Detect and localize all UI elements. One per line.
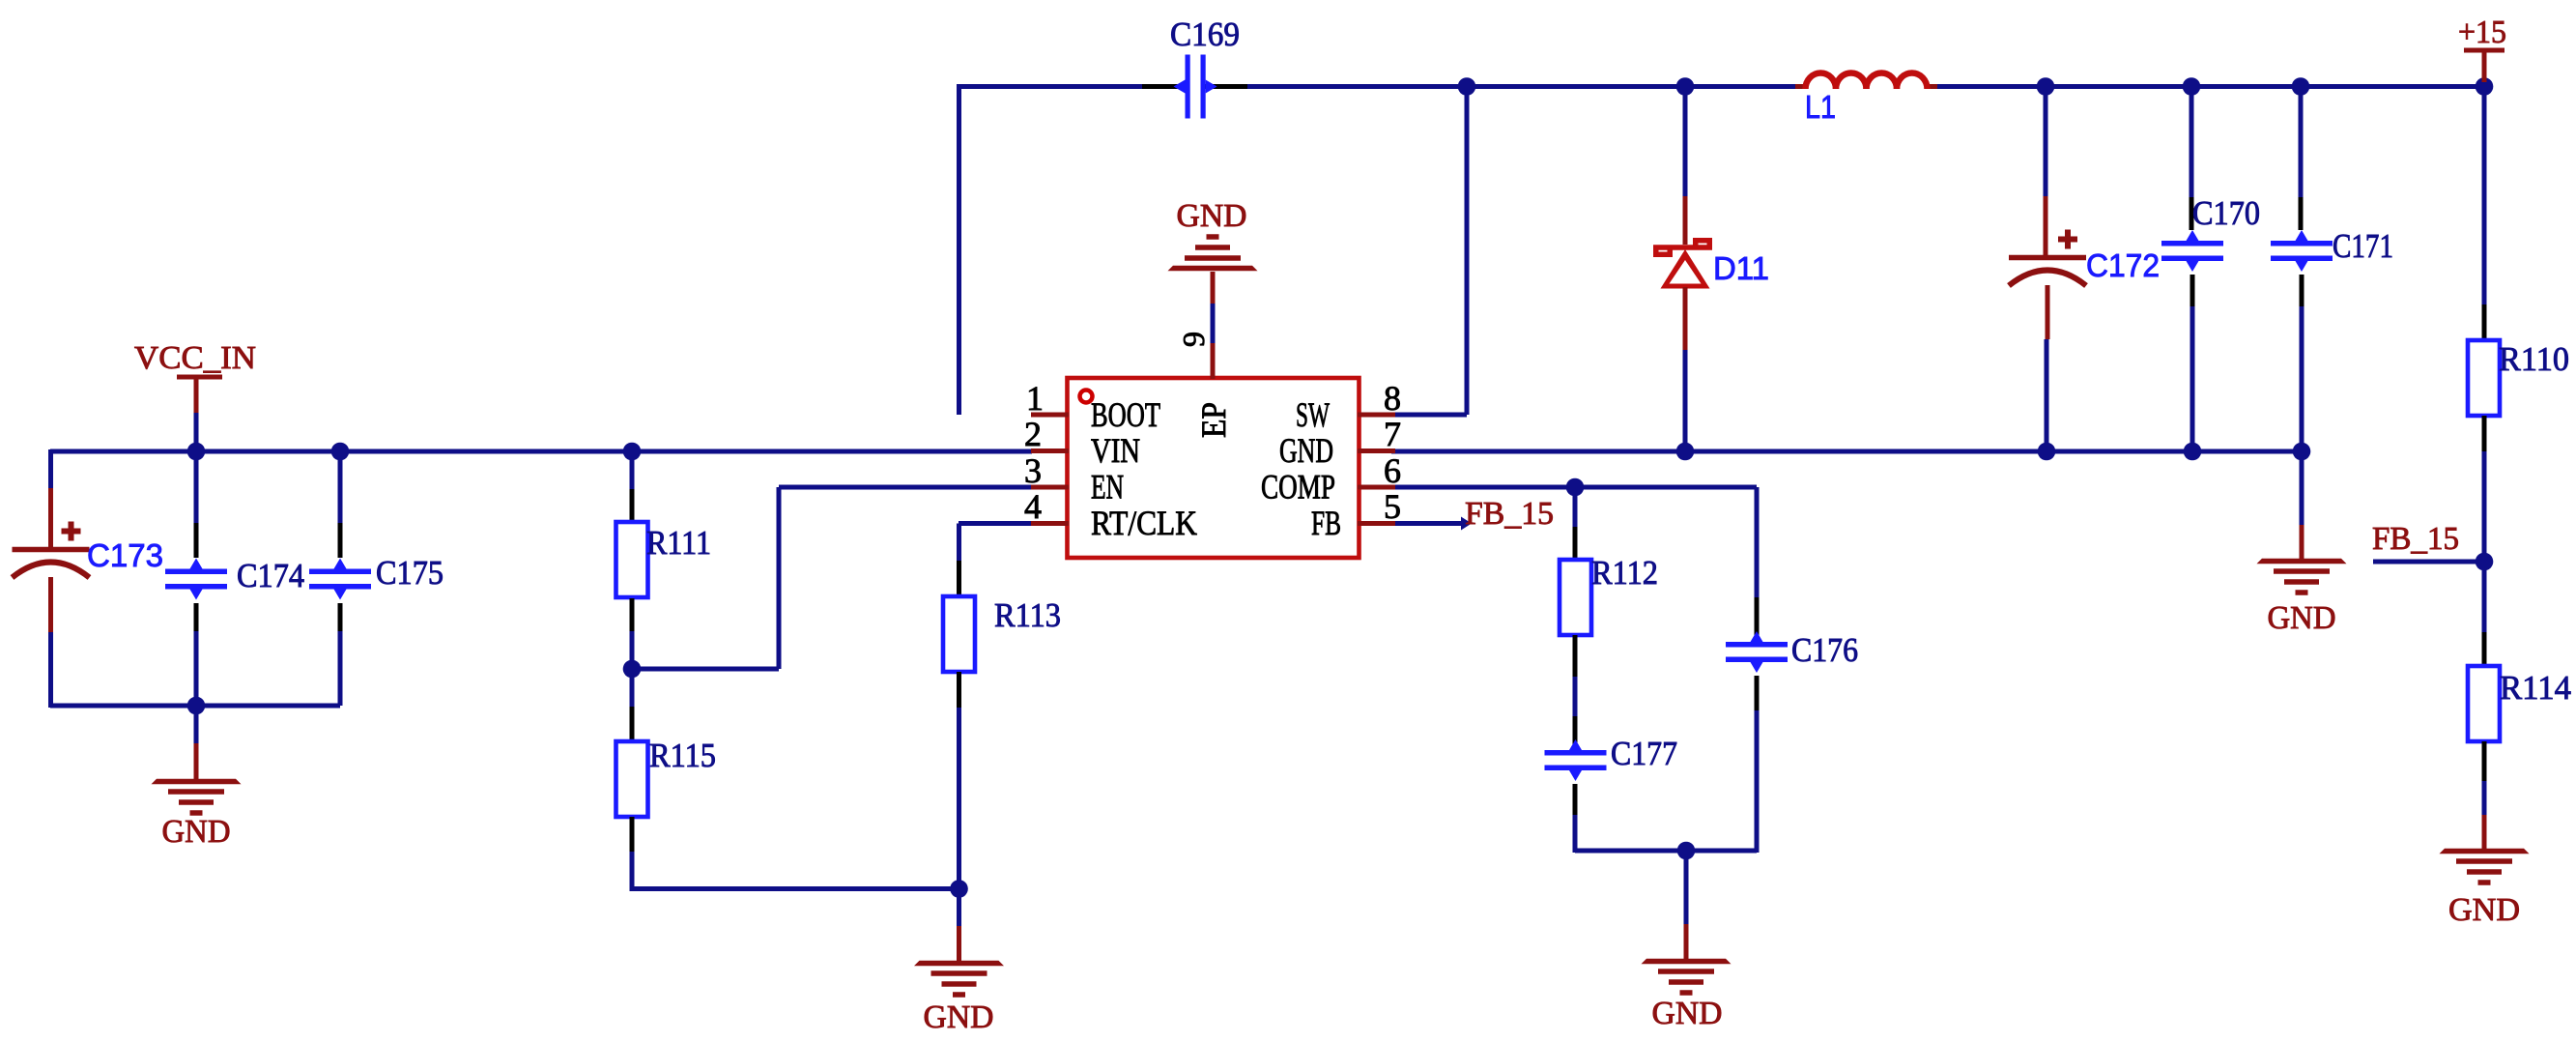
resistor R113 bottom lead (957, 672, 961, 708)
op-amp U1 pin stubs (1031, 413, 1395, 527)
wire C170 bottom (2190, 306, 2195, 451)
wire pin6 COMP (1395, 485, 1757, 490)
diode D11 anode lead (1683, 287, 1688, 350)
wire top rail L1 to +15 corner (1936, 84, 2484, 89)
wire R110 to FB junction (2482, 451, 2487, 562)
capacitor C177 bottom lead (1573, 784, 1578, 815)
svg-text:EN: EN (1091, 468, 1124, 507)
node D11 bottom junction (1676, 443, 1695, 461)
svg-text:GND: GND (1279, 431, 1333, 470)
wire RT/CLK to pin4 (959, 521, 1032, 526)
node left GND junction (187, 697, 206, 715)
svg-text:FB_15: FB_15 (2372, 521, 2459, 557)
wire C177 bottom (1573, 815, 1578, 853)
svg-text:C172: C172 (2086, 247, 2160, 283)
capacitor C175 (309, 569, 371, 575)
wire SW vertical (1465, 86, 1470, 415)
capacitor C169 (1186, 55, 1190, 119)
svg-text:2: 2 (1024, 415, 1042, 453)
resistor R110 bottom lead (2482, 416, 2487, 451)
capacitor C172 bottom lead (2046, 285, 2050, 339)
node R113 GND junction (950, 880, 968, 898)
wire C172 bottom (2045, 339, 2049, 451)
wire pin 9 (1211, 304, 1216, 343)
svg-text:VCC_IN: VCC_IN (134, 340, 256, 376)
capacitor C170 top lead (2190, 197, 2194, 230)
node C170 bottom junction (2184, 443, 2202, 461)
capacitor C177 (1545, 750, 1607, 756)
inductor L1 (1806, 73, 1928, 89)
diode D11 (1653, 238, 1712, 289)
svg-text:C177: C177 (1611, 735, 1677, 772)
wire pin5 FB stub (1395, 517, 1472, 531)
wire C175 bottom (338, 631, 343, 706)
power VCC_IN flag (134, 340, 256, 451)
capacitor C176 top lead (1755, 597, 1760, 642)
svg-text:1: 1 (1026, 379, 1044, 418)
capacitor C169 leads (1142, 84, 1247, 89)
svg-text:C174: C174 (237, 557, 304, 594)
svg-text:SW: SW (1296, 395, 1330, 434)
svg-text:C170: C170 (2192, 194, 2260, 232)
resistor R114 (2468, 666, 2500, 741)
svg-text:R115: R115 (649, 737, 716, 774)
wire EN riser (777, 487, 782, 669)
resistor R113 (943, 596, 975, 672)
svg-text:L1: L1 (1805, 89, 1836, 125)
ground left (152, 706, 242, 850)
ground above IC inverted (1168, 198, 1258, 271)
svg-text:8: 8 (1384, 379, 1401, 418)
capacitor C171 bottom lead (2300, 275, 2304, 306)
svg-text:+15: +15 (2458, 14, 2506, 50)
wire top rail D11 to L1 (1685, 84, 1796, 89)
resistor R115 (616, 741, 648, 817)
svg-text:RT/CLK: RT/CLK (1091, 504, 1197, 542)
capacitor C175 top lead (338, 523, 343, 558)
svg-text:GND: GND (2268, 600, 2336, 636)
svg-text:EP: EP (1194, 402, 1233, 438)
capacitor C174 bottom lead (194, 603, 199, 631)
power +15 flag (2458, 14, 2506, 82)
node C175 top junction (331, 443, 350, 461)
svg-text:D11: D11 (1713, 250, 1769, 286)
op-amp U1 pin1 indicator (1080, 391, 1093, 403)
resistor R112 bottom lead (1573, 635, 1578, 677)
ground below R114 (2440, 815, 2530, 928)
node C171 top junction (2292, 77, 2310, 96)
node C172 bottom junction (2038, 443, 2056, 461)
svg-text:BOOT: BOOT (1091, 395, 1160, 434)
svg-text:4: 4 (1024, 487, 1042, 526)
svg-text:GND: GND (162, 814, 231, 850)
svg-text:9: 9 (1176, 332, 1211, 347)
resistor R113 top lead (957, 561, 961, 596)
wire C173 bottom (48, 632, 53, 708)
wire R115 bottom (630, 852, 635, 891)
wire RT/CLK riser (957, 524, 961, 562)
wire EN to pin3 (779, 485, 1032, 490)
wire VIN rail (50, 449, 1032, 454)
capacitor C170 (2161, 241, 2223, 246)
capacitor C171 (2271, 241, 2333, 246)
wire C176 top (1755, 487, 1760, 597)
wire EN junction to riser (632, 667, 779, 672)
svg-text:VIN: VIN (1091, 431, 1140, 470)
wire bottom run R115 to R113 (632, 886, 959, 891)
svg-text:6: 6 (1384, 451, 1401, 490)
svg-text:R112: R112 (1591, 554, 1658, 592)
svg-text:R111: R111 (646, 524, 711, 562)
svg-text:R113: R113 (994, 596, 1061, 634)
inductor L1 lead stubs (1795, 84, 1937, 89)
wire R112 top (1573, 487, 1578, 527)
resistor R112 (1560, 560, 1591, 635)
svg-text:GND: GND (2448, 892, 2520, 928)
wire R111 bottom (630, 631, 635, 669)
svg-text:GND: GND (1652, 996, 1723, 1031)
resistor R111 bottom lead (630, 598, 635, 631)
ground above pin 9 stem (1211, 272, 1216, 304)
resistor R115 top lead (630, 707, 635, 741)
wire C174 bottom (194, 631, 199, 706)
wire C170 top (2190, 86, 2194, 197)
wire BOOT vertical (957, 84, 961, 415)
wire pin8 to SW riser (1395, 413, 1467, 418)
wire FB_15 stub right (2373, 560, 2484, 564)
wire D11 top (1683, 86, 1688, 196)
resistor R111 top lead (630, 489, 635, 522)
svg-text:C175: C175 (376, 554, 444, 592)
resistor R111 (616, 522, 648, 597)
node C172 top junction (2037, 77, 2055, 96)
capacitor C170 bottom lead (2190, 275, 2195, 306)
wire C172 top (2044, 86, 2048, 196)
svg-text:GND: GND (924, 999, 994, 1035)
node C170 top junction (2183, 77, 2201, 96)
ground below C171 (2257, 525, 2347, 636)
svg-text:5: 5 (1384, 487, 1401, 526)
wire C174 top (194, 451, 199, 523)
svg-text:C169: C169 (1170, 15, 1240, 53)
node R111 R115 junction (623, 660, 642, 679)
capacitor C175 bottom lead (338, 603, 343, 631)
wire R114 top (2482, 562, 2487, 632)
svg-text:3: 3 (1024, 451, 1042, 490)
resistor R114 top lead (2482, 632, 2487, 666)
svg-text:C173: C173 (87, 537, 163, 573)
node SW junction (1458, 77, 1476, 96)
wire left bottom rail (50, 704, 340, 709)
capacitor C173 (13, 547, 90, 553)
ground below FB network (1642, 851, 1732, 1031)
wire C175 top (338, 451, 343, 523)
wire R115 top (630, 669, 635, 707)
wire D11 bottom (1683, 350, 1688, 451)
svg-text:C176: C176 (1791, 631, 1858, 669)
resistor R114 bottom lead (2482, 741, 2487, 781)
wire top rail C169 to SW junction (1203, 84, 1467, 89)
node FB network GND junction (1677, 842, 1696, 860)
capacitor C171 top lead (2299, 197, 2304, 230)
capacitor C173 bottom lead (48, 577, 53, 632)
svg-text:C171: C171 (2333, 227, 2393, 265)
diode D11 cathode lead (1683, 196, 1688, 245)
wire R113 bottom (957, 708, 961, 888)
wire C171 bottom (2300, 306, 2304, 451)
resistor R110 top lead (2482, 304, 2487, 340)
wire bottom run R112 branch (1575, 849, 1757, 854)
svg-text:R114: R114 (2500, 669, 2571, 707)
wire top rail SW junction to D11 (1467, 84, 1685, 89)
capacitor C174 (165, 569, 227, 575)
node FB_15 junction (2476, 553, 2494, 571)
node C171 bottom junction (2293, 443, 2311, 461)
resistor R115 bottom lead (630, 817, 635, 852)
op-amp U1 box (1068, 378, 1360, 558)
wire GND rail pin7 to C171 drop (1391, 449, 2302, 454)
svg-text:GND: GND (1177, 198, 1247, 234)
ground below R113 (914, 888, 1004, 1035)
capacitor C172 top lead (2044, 196, 2048, 255)
node +15 junction (2476, 77, 2494, 96)
node COMP junction (1566, 478, 1585, 497)
wire R111 top (630, 451, 635, 489)
resistor R112 top lead (1573, 527, 1578, 560)
svg-text:FB: FB (1311, 504, 1341, 542)
resistor R110 (2468, 340, 2500, 416)
pin 9 stub (1211, 343, 1216, 379)
wire C171 to ground (2300, 451, 2304, 525)
wire C171 top (2299, 86, 2304, 197)
wire C173 top (48, 449, 53, 488)
wire top rail from BOOT corner to C169 (957, 84, 1188, 89)
capacitor C176 (1726, 642, 1788, 648)
node VCC_IN junction (187, 443, 206, 461)
svg-text:COMP: COMP (1261, 468, 1335, 507)
wire R112 to C177 (1573, 677, 1578, 716)
capacitor C172 (2009, 255, 2086, 261)
capacitor C177 top lead (1573, 716, 1578, 750)
node D11 top junction (1676, 77, 1695, 96)
capacitor C174 top lead (194, 523, 199, 558)
svg-text:R110: R110 (2499, 340, 2569, 378)
capacitor C173 top lead (48, 488, 53, 547)
wire C176 bottom (1755, 710, 1760, 853)
svg-text:7: 7 (1384, 415, 1401, 453)
node R111 junction (623, 443, 642, 461)
wire R110 top (2482, 86, 2487, 304)
capacitor C176 bottom lead (1755, 676, 1760, 710)
svg-text:FB_15: FB_15 (1465, 496, 1554, 532)
wire R114 to ground (2482, 781, 2487, 815)
